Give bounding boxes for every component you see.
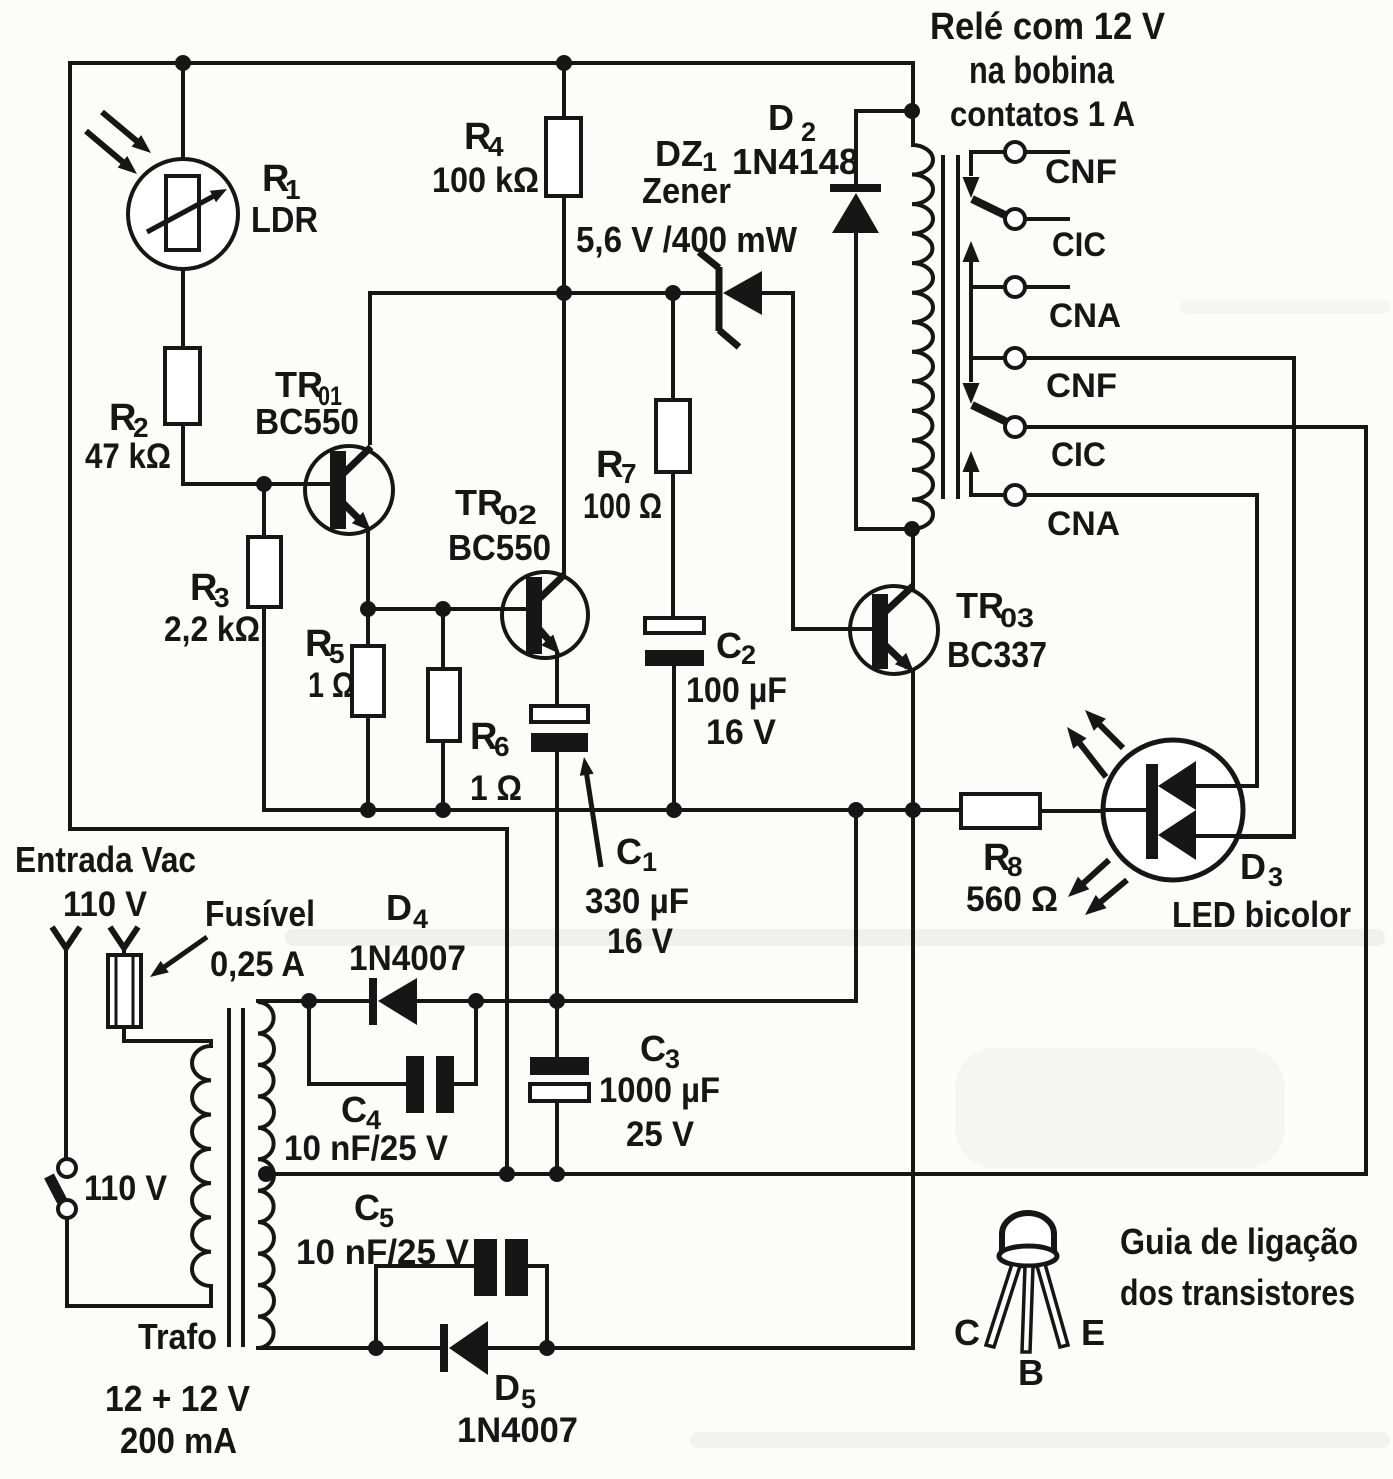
wire R6 to 0-rail: [441, 739, 445, 812]
capacitor C2 plate -: [645, 650, 704, 666]
svg-text:Relé com 12 V: Relé com 12 V: [930, 6, 1166, 48]
transistor TR01 BC550: [305, 446, 393, 534]
wire fork L down: [64, 946, 68, 1162]
terminal fork N: [110, 927, 138, 948]
transformer T1 primary: [209, 1039, 213, 1048]
svg-text:10 nF/25 V: 10 nF/25 V: [296, 1233, 470, 1272]
svg-text:TR: TR: [956, 585, 1004, 626]
TO-92 leg B: [1022, 1266, 1033, 1352]
wire C4 right: [454, 1001, 476, 1084]
wire D2 top jog: [856, 111, 912, 188]
svg-text:R: R: [596, 444, 623, 486]
node relay+ / D2 junction: [904, 103, 920, 119]
TO-92 leg E: [1037, 1264, 1068, 1347]
terminal fork L: [52, 927, 80, 948]
TO-92 package drawing: [1002, 1213, 1054, 1253]
armature 2 up arrow: [963, 451, 980, 472]
svg-text:CIC: CIC: [1051, 436, 1106, 474]
svg-text:3: 3: [214, 582, 230, 613]
resistor R6: [428, 669, 460, 741]
transformer T1 core: [227, 1008, 231, 1347]
node C4 left branch: [301, 993, 317, 1009]
contact CNA2 terminal: [1005, 485, 1025, 505]
svg-text:330 µF: 330 µF: [585, 882, 689, 921]
wire fork N down: [122, 946, 126, 957]
arrow to C1: [586, 768, 601, 867]
wire secondary bottom: [256, 1346, 443, 1350]
wire left rail jog to center-tap: [68, 827, 507, 831]
wire R2 to base node: [183, 424, 264, 484]
arrow to fuse: [159, 937, 207, 971]
wire TR02 emitter down: [555, 651, 559, 708]
svg-text:TR: TR: [455, 482, 503, 523]
contact CNF1 terminal: [1005, 142, 1025, 162]
svg-text:Trafo: Trafo: [138, 1316, 217, 1357]
svg-text:D: D: [386, 887, 412, 928]
resistor R3: [248, 537, 281, 607]
wire TR02 collector up: [562, 291, 566, 576]
TO-92 leg C: [986, 1264, 1020, 1347]
svg-text:D: D: [768, 97, 794, 138]
transistor TR03 BC337: [850, 586, 938, 674]
wire C5 left: [376, 1266, 474, 1348]
wire armature 2 top: [971, 358, 1005, 382]
switch blade 1: [972, 199, 1011, 218]
wire zener to TR03 base: [793, 293, 874, 629]
svg-text:dos transistores: dos transistores: [1120, 1272, 1355, 1313]
svg-text:CNA: CNA: [1049, 297, 1121, 335]
svg-text:100 µF: 100 µF: [686, 671, 787, 710]
node C5 right branch: [539, 1340, 555, 1356]
svg-text:BC337: BC337: [947, 634, 1047, 675]
svg-text:5,6 V /400 mW: 5,6 V /400 mW: [576, 219, 797, 260]
wire armature 1 top: [971, 152, 1005, 176]
photoresistor R1 LDR: [128, 159, 238, 269]
node R6 branch junction: [435, 601, 451, 617]
node relay- / TR03 collector junction: [904, 521, 920, 537]
wire C2 to 0-rail: [672, 666, 676, 812]
wire TR01 collector up: [368, 295, 372, 445]
node R5 / rail: [360, 802, 376, 818]
capacitor C3 plate +: [530, 1057, 589, 1075]
svg-text:C: C: [640, 1028, 666, 1069]
svg-text:Entrada Vac: Entrada Vac: [15, 839, 196, 880]
svg-text:2,2 kΩ: 2,2 kΩ: [164, 610, 260, 649]
node R6 / rail: [435, 802, 451, 818]
wire TR03 collector: [911, 527, 915, 590]
svg-text:1 Ω: 1 Ω: [470, 769, 522, 808]
svg-text:16 V: 16 V: [607, 922, 674, 961]
node R4 / TR02 collector junction: [556, 285, 572, 301]
wire TR03 emitter: [911, 669, 915, 812]
node zener rail / R7 junction: [665, 285, 681, 301]
wire CNF2 to LED lower: [1025, 358, 1294, 837]
svg-text:0,25 A: 0,25 A: [210, 945, 305, 984]
wire zener anode: [760, 291, 795, 295]
wire base node to R3: [262, 482, 266, 539]
svg-text:100 kΩ: 100 kΩ: [432, 161, 539, 200]
relay coil K1: [912, 145, 933, 529]
svg-text:10 nF/25 V: 10 nF/25 V: [284, 1129, 449, 1168]
wire R6 top: [441, 607, 445, 671]
svg-text:1N4148: 1N4148: [732, 141, 859, 182]
svg-text:CNF: CNF: [1046, 367, 1117, 405]
led D3 emission arrows down: [1077, 860, 1109, 889]
wire collector rail to zener: [368, 291, 719, 295]
node TR03 emitter / rail: [905, 802, 921, 818]
wire CNA2: [971, 493, 1005, 497]
node C5 left branch: [368, 1340, 384, 1356]
svg-text:C: C: [716, 625, 742, 666]
resistor R7: [656, 400, 690, 472]
light arrow 1 into R1: [102, 112, 142, 146]
svg-text:8: 8: [1007, 851, 1023, 882]
svg-text:110 V: 110 V: [63, 885, 148, 924]
diode D2 1N4148: [830, 184, 881, 192]
wire D2 bottom jog: [856, 231, 911, 529]
svg-text:1000 µF: 1000 µF: [599, 1071, 720, 1110]
wire LDR top: [181, 63, 185, 161]
svg-text:C: C: [954, 1312, 980, 1353]
transformer T1 secondary: [258, 1002, 274, 1348]
wire relay coil top: [911, 61, 915, 147]
wire left rail: [68, 61, 72, 831]
wire D5 out: [486, 1346, 915, 1350]
contact CIC2 terminal: [1005, 417, 1025, 437]
armature 2 arrow: [963, 383, 980, 404]
wire R7 to C2: [671, 470, 675, 620]
svg-text:C: C: [341, 1089, 367, 1130]
svg-text:C: C: [354, 1187, 380, 1228]
capacitor C4: [406, 1056, 424, 1113]
svg-text:200 mA: 200 mA: [120, 1420, 237, 1461]
svg-text:5: 5: [521, 1384, 536, 1414]
wire C5 right: [528, 1266, 547, 1348]
svg-text:DZ: DZ: [655, 133, 703, 174]
svg-text:LED bicolor: LED bicolor: [1172, 894, 1351, 935]
svg-text:1 Ω: 1 Ω: [308, 666, 355, 705]
contact CNA1 terminal: [1005, 277, 1025, 297]
wire CNA2 to LED upper: [1025, 495, 1257, 786]
led D3 bicolor: [1103, 740, 1243, 880]
node C1/C3 junction: [549, 993, 565, 1009]
svg-text:Fusível: Fusível: [205, 893, 315, 934]
svg-text:BC550: BC550: [255, 401, 359, 442]
wire fuse to primary: [124, 1025, 211, 1041]
svg-text:47 kΩ: 47 kΩ: [85, 437, 171, 476]
wire armature link: [969, 287, 973, 360]
svg-text:CNF: CNF: [1045, 153, 1117, 191]
svg-text:E: E: [1081, 1312, 1105, 1353]
svg-text:B: B: [1018, 1352, 1044, 1393]
svg-text:1N4007: 1N4007: [349, 939, 466, 978]
node C4 right branch: [468, 993, 484, 1009]
svg-text:LDR: LDR: [251, 199, 318, 240]
wire CIC2 to 0V rail: [1025, 427, 1366, 1176]
node center tap: [258, 1166, 274, 1182]
armature 1 arrow: [963, 177, 980, 198]
wire CNA1: [971, 285, 1005, 289]
light arrow 2 into R1: [86, 131, 128, 167]
wire R3 to 0-rail: [262, 605, 266, 812]
svg-text:TR: TR: [275, 364, 323, 405]
node C2 / rail: [666, 802, 682, 818]
capacitor C1 plate -: [531, 733, 588, 752]
svg-text:3: 3: [1268, 862, 1283, 892]
wire C3 bottom: [555, 1101, 559, 1176]
capacitor C1 plate +: [531, 706, 588, 722]
resistor R4: [546, 118, 581, 196]
svg-text:100 Ω: 100 Ω: [583, 487, 662, 526]
relay core: [941, 155, 945, 499]
svg-text:7: 7: [621, 458, 637, 489]
contact CNF2 terminal: [1005, 348, 1025, 368]
svg-text:3: 3: [665, 1044, 680, 1074]
wire C1 down: [555, 752, 559, 1003]
svg-text:Zener: Zener: [642, 170, 731, 211]
led D3 emission arrows up: [1094, 719, 1123, 748]
wire R7 top: [671, 291, 675, 402]
wire rectifier riser: [854, 808, 858, 1003]
svg-text:02: 02: [499, 500, 537, 530]
svg-text:5: 5: [379, 1203, 394, 1233]
node TR01 emitter junction: [360, 601, 376, 617]
wire emitter node to TR02 base: [368, 607, 527, 611]
svg-text:1N4007: 1N4007: [457, 1411, 578, 1450]
switch 110V: [58, 1159, 76, 1177]
svg-text:2: 2: [741, 640, 756, 670]
wire R4 to collector rail: [562, 194, 566, 295]
node C3 / ct-rail: [549, 1166, 565, 1182]
zener diode DZ1: [723, 271, 762, 315]
switch blade 2: [972, 405, 1011, 424]
svg-text:110 V: 110 V: [84, 1169, 168, 1208]
resistor R2: [165, 348, 200, 424]
svg-text:03: 03: [1000, 603, 1034, 633]
svg-text:BC550: BC550: [448, 527, 551, 568]
svg-text:D: D: [494, 1367, 520, 1408]
transistor TR02 BC550: [502, 572, 588, 658]
svg-text:C: C: [616, 831, 642, 872]
svg-text:4: 4: [488, 131, 504, 162]
resistor R8: [961, 794, 1040, 828]
svg-text:CIC: CIC: [1052, 226, 1106, 264]
wire secondary top: [256, 999, 372, 1003]
contact CIC1 terminal: [1005, 209, 1025, 229]
svg-text:na bobina: na bobina: [969, 50, 1115, 92]
wire D4 out: [415, 999, 856, 1003]
svg-text:4: 4: [413, 904, 428, 934]
wire R1 to R2: [181, 267, 185, 350]
wire C3 top: [555, 999, 559, 1059]
wire R4 top: [562, 63, 566, 120]
node jog / ct-rail: [499, 1166, 515, 1182]
wire jog drop to 0V rail: [505, 827, 509, 1176]
node top-rail / LDR junction: [175, 55, 191, 71]
svg-text:16 V: 16 V: [706, 713, 777, 752]
capacitor C2 plate +: [645, 618, 704, 633]
svg-text:25 V: 25 V: [626, 1115, 695, 1154]
svg-text:D: D: [1240, 846, 1266, 887]
capacitor C5: [474, 1239, 497, 1296]
node top-rail / R4 junction: [556, 55, 572, 71]
wire bottom riser to mid rail: [911, 810, 915, 1350]
svg-text:1: 1: [642, 847, 657, 877]
svg-text:560 Ω: 560 Ω: [966, 880, 1058, 919]
wire mid rail: [264, 808, 963, 812]
svg-text:5: 5: [329, 638, 345, 669]
wire C4 left: [309, 1001, 406, 1084]
node TR01 base junction: [256, 476, 272, 492]
svg-text:6: 6: [494, 731, 510, 762]
diode D5 1N4007: [440, 1324, 448, 1372]
capacitor C3 plate -: [530, 1084, 589, 1101]
resistor R5: [352, 646, 384, 716]
fuse F1: [108, 955, 141, 1027]
svg-text:Guia de ligação: Guia de ligação: [1120, 1221, 1358, 1262]
wire R5 top: [366, 607, 370, 648]
wire top +V rail: [70, 61, 913, 65]
wire switch to primary bottom: [67, 1216, 213, 1306]
svg-text:contatos 1 A: contatos 1 A: [950, 95, 1135, 134]
diode D4 1N4007: [369, 978, 377, 1025]
svg-text:12 + 12 V: 12 + 12 V: [105, 1378, 250, 1419]
wire TR01 emitter down: [366, 527, 370, 611]
wire R5 to 0-rail: [366, 714, 370, 812]
wire center-tap rail: [262, 1172, 1368, 1176]
svg-text:CNA: CNA: [1047, 505, 1120, 543]
node rectifier riser / rail: [848, 802, 864, 818]
armature 1 up arrow: [963, 241, 980, 262]
